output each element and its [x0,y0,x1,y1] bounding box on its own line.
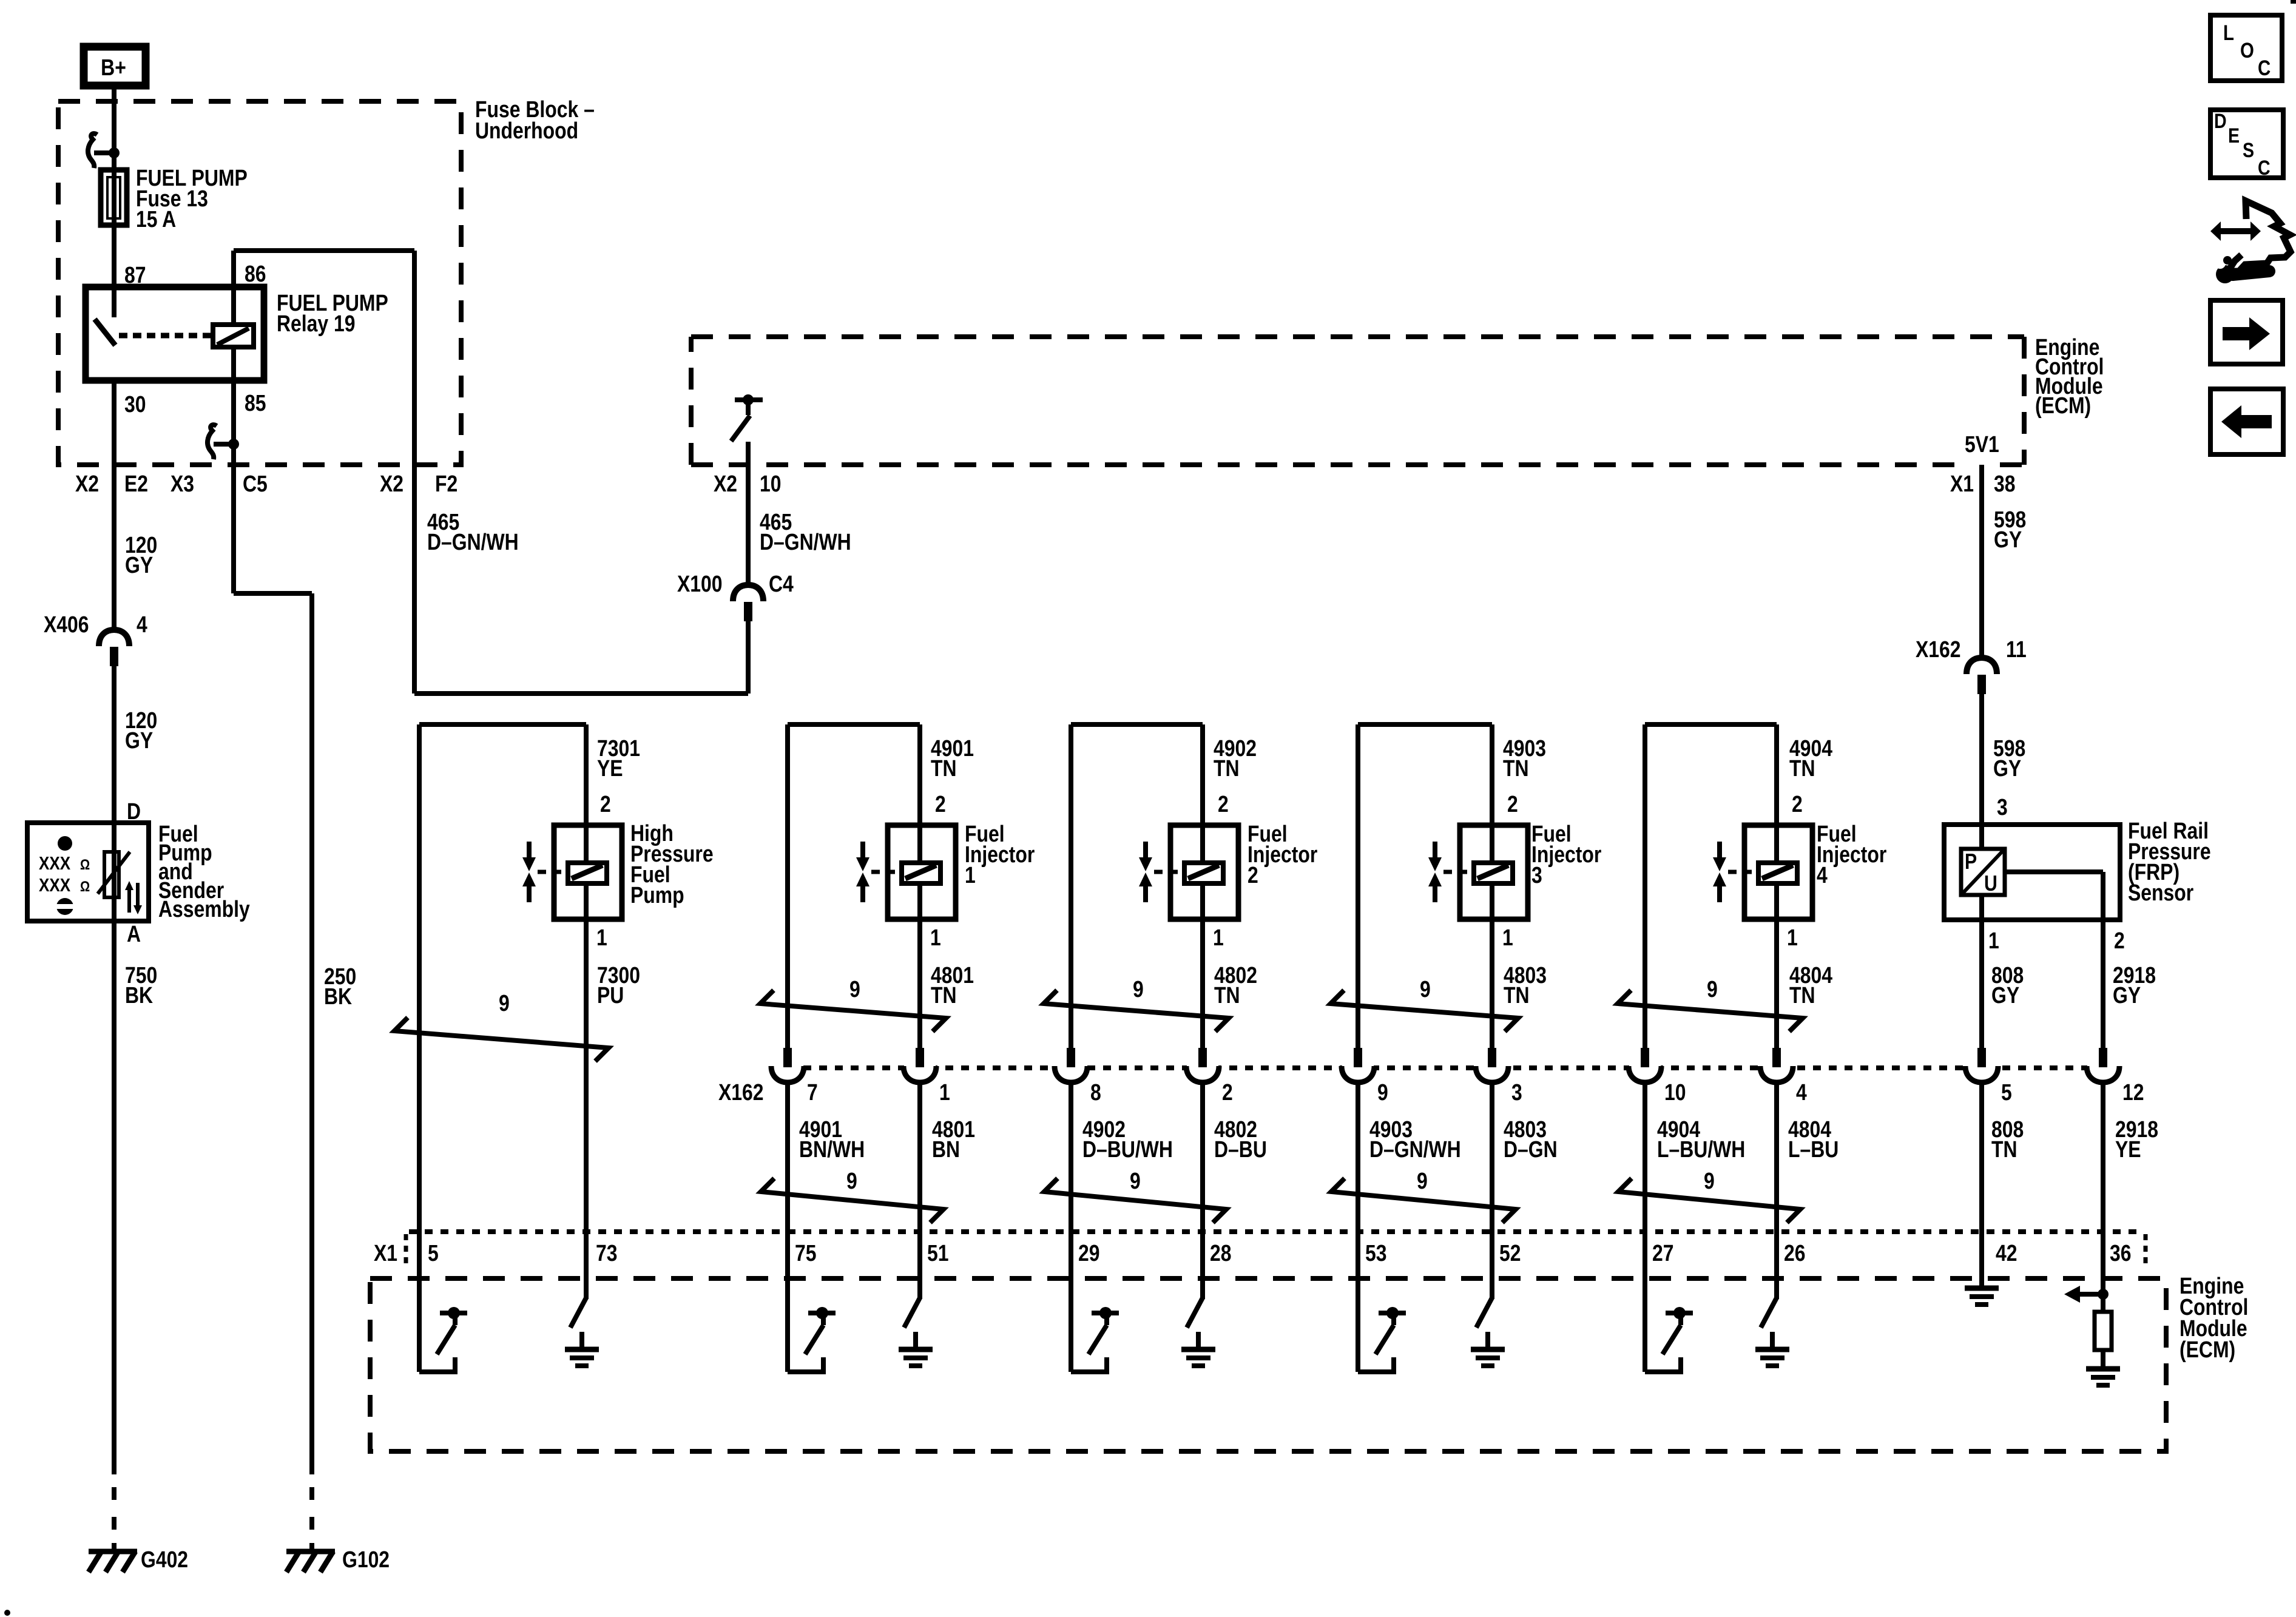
svg-text:9: 9 [499,990,510,1016]
svg-text:9: 9 [1420,976,1431,1002]
svg-text:2: 2 [1792,791,1803,817]
svg-text:X162: X162 [718,1079,764,1105]
svg-text:TN: TN [1503,755,1529,781]
svg-text:5V1: 5V1 [1965,431,1999,457]
svg-text:9: 9 [1707,976,1718,1002]
svg-text:TN: TN [1991,1136,2017,1162]
svg-text:4: 4 [137,612,147,637]
svg-text:E2: E2 [124,471,148,496]
svg-text:D: D [2214,110,2227,133]
svg-text:U: U [1984,872,1997,896]
svg-text:D–GN/WH: D–GN/WH [427,529,519,555]
svg-text:9: 9 [1377,1079,1388,1105]
svg-text:BK: BK [125,982,153,1008]
svg-text:3: 3 [1511,1079,1522,1105]
svg-text:X3: X3 [171,471,194,496]
svg-text:73: 73 [596,1240,618,1266]
svg-text:8: 8 [1090,1079,1101,1105]
svg-text:52: 52 [1499,1240,1521,1266]
svg-text:1: 1 [1502,925,1513,950]
svg-text:Pump: Pump [630,882,684,908]
svg-text:A: A [127,921,141,947]
svg-text:2: 2 [935,791,946,817]
svg-text:10: 10 [1664,1079,1686,1105]
svg-text:GY: GY [2113,982,2141,1008]
svg-text:GY: GY [1994,527,2022,552]
svg-text:1: 1 [939,1079,950,1105]
svg-text:GY: GY [1991,982,2019,1008]
svg-text:28: 28 [1210,1240,1232,1266]
svg-text:(ECM): (ECM) [2035,393,2091,418]
svg-text:D–BU/WH: D–BU/WH [1082,1136,1173,1162]
svg-text:O: O [2240,39,2254,62]
svg-text:53: 53 [1365,1240,1387,1266]
svg-text:7: 7 [807,1079,818,1105]
svg-text:X2: X2 [714,471,737,496]
svg-text:86: 86 [245,261,266,286]
svg-text:1: 1 [930,925,941,950]
svg-text:1: 1 [1988,928,1999,953]
svg-text:2: 2 [1507,791,1518,817]
svg-text:X2: X2 [380,471,403,496]
svg-text:Ω: Ω [80,856,90,873]
svg-text:YE: YE [2115,1136,2141,1162]
svg-text:1: 1 [1787,925,1798,950]
svg-text:TN: TN [1789,755,1815,781]
svg-text:27: 27 [1652,1240,1674,1266]
svg-text:BN: BN [932,1136,960,1162]
svg-text:75: 75 [795,1240,817,1266]
svg-text:X2: X2 [75,471,99,496]
svg-text:E: E [2228,124,2240,147]
svg-text:TN: TN [1214,755,1240,781]
svg-text:BN/WH: BN/WH [799,1136,865,1162]
svg-text:X406: X406 [44,612,89,637]
svg-text:L: L [2223,21,2234,45]
svg-text:C4: C4 [769,571,794,596]
svg-text:3: 3 [1531,862,1542,888]
svg-text:G102: G102 [342,1547,390,1572]
svg-text:PU: PU [597,982,624,1008]
svg-text:Sensor: Sensor [2128,880,2193,905]
svg-text:D–GN: D–GN [1504,1136,1558,1162]
svg-text:X162: X162 [1916,636,1961,662]
svg-text:2: 2 [1222,1079,1233,1105]
svg-text:10: 10 [760,471,782,496]
svg-text:G402: G402 [141,1547,188,1572]
svg-text:12: 12 [2122,1079,2144,1105]
svg-text:GY: GY [1993,755,2021,781]
svg-text:38: 38 [1994,471,2016,496]
svg-text:51: 51 [927,1240,949,1266]
svg-text:C: C [2258,56,2271,80]
svg-text:2: 2 [600,791,611,817]
svg-text:L–BU: L–BU [1788,1136,1838,1162]
svg-text:9: 9 [1130,1168,1141,1193]
svg-text:30: 30 [124,391,146,417]
svg-text:B+: B+ [101,55,126,80]
svg-text:C5: C5 [243,471,268,496]
svg-text:9: 9 [849,976,860,1002]
svg-text:4: 4 [1817,862,1828,888]
svg-text:L–BU/WH: L–BU/WH [1657,1136,1745,1162]
svg-text:X1: X1 [374,1240,397,1266]
svg-text:15 A: 15 A [136,206,176,232]
svg-text:2: 2 [1248,862,1258,888]
svg-text:S: S [2243,139,2254,162]
svg-text:36: 36 [2110,1240,2132,1266]
svg-text:1: 1 [596,925,607,950]
svg-text:X1: X1 [1950,471,1974,496]
svg-text:29: 29 [1078,1240,1100,1266]
svg-text:2: 2 [1218,791,1229,817]
svg-text:TN: TN [931,982,957,1008]
svg-text:2: 2 [2114,928,2125,953]
svg-text:X100: X100 [677,571,723,596]
svg-text:D–BU: D–BU [1214,1136,1267,1162]
svg-text:TN: TN [1789,982,1815,1008]
svg-text:Underhood: Underhood [475,118,578,143]
svg-text:4: 4 [1796,1079,1807,1105]
svg-text:D–GN/WH: D–GN/WH [1369,1136,1461,1162]
svg-text:GY: GY [125,727,153,753]
svg-text:9: 9 [1417,1168,1428,1193]
svg-text:5: 5 [428,1240,439,1266]
svg-text:1: 1 [965,862,976,888]
svg-text:C: C [2258,157,2271,180]
svg-text:XXX: XXX [39,875,70,896]
svg-text:XXX: XXX [39,853,70,874]
svg-text:1: 1 [1213,925,1224,950]
svg-text:D: D [127,798,141,824]
svg-text:(ECM): (ECM) [2180,1337,2235,1362]
svg-text:Ω: Ω [80,878,90,894]
svg-text:26: 26 [1784,1240,1806,1266]
svg-text:9: 9 [1704,1168,1715,1193]
svg-text:3: 3 [1997,794,2008,820]
svg-text:87: 87 [124,262,146,288]
svg-text:P: P [1965,850,1977,874]
svg-text:42: 42 [1996,1240,2017,1266]
svg-text:F2: F2 [435,471,458,496]
svg-text:TN: TN [1504,982,1530,1008]
svg-text:9: 9 [846,1168,857,1193]
svg-text:GY: GY [125,552,153,578]
svg-text:BK: BK [324,984,352,1009]
svg-text:85: 85 [245,390,266,416]
svg-text:TN: TN [931,755,957,781]
svg-text:11: 11 [2006,636,2027,662]
svg-text:Relay 19: Relay 19 [277,311,356,336]
svg-text:5: 5 [2001,1079,2012,1105]
svg-text:TN: TN [1214,982,1240,1008]
svg-text:D–GN/WH: D–GN/WH [760,529,851,555]
svg-text:YE: YE [597,755,623,781]
svg-text:Assembly: Assembly [158,896,250,922]
svg-text:9: 9 [1133,976,1144,1002]
